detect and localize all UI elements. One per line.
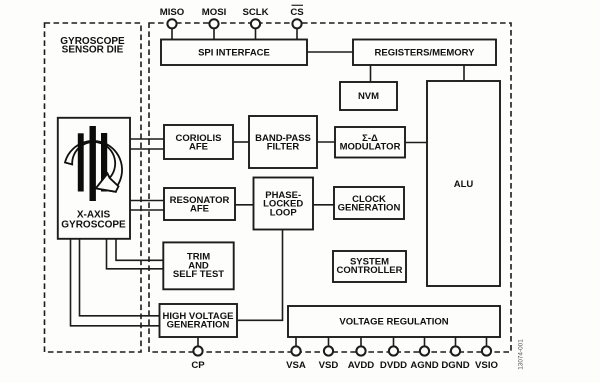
block BAND-PASS FILTER (249, 116, 317, 168)
pin SCLK (242, 7, 268, 40)
wire SPI INTERFACE to REGISTERS/MEMORY (307, 51, 353, 53)
svg-text:SCLK: SCLK (242, 7, 268, 18)
block TRIM AND SELF TEST (163, 242, 233, 289)
chip package boundary (149, 23, 511, 352)
block SIGMA-DELTA MODULATOR (335, 127, 405, 158)
pin VSIO (475, 337, 498, 371)
svg-text:VSIO: VSIO (475, 360, 498, 371)
svg-text:AFE: AFE (189, 142, 208, 153)
pin CS (active low, overline) (290, 5, 304, 39)
block VOLTAGE REGULATION (288, 306, 500, 337)
block HIGH VOLTAGE GENERATION (160, 304, 238, 337)
pin MISO (160, 7, 185, 40)
svg-text:GYROSCOPE: GYROSCOPE (61, 219, 126, 230)
svg-text:AGND: AGND (410, 360, 438, 371)
svg-text:SPI INTERFACE: SPI INTERFACE (198, 47, 270, 58)
wire gyroscope to CORIOLIS AFE (differential pair) (130, 139, 164, 149)
wire BAND-PASS FILTER to SIGMA-DELTA MODULATOR (317, 141, 335, 143)
block SPI INTERFACE (161, 40, 307, 66)
wire SIGMA-DELTA MODULATOR to ALU (405, 142, 427, 144)
pin CP (191, 337, 205, 371)
wire gyroscope to RESONATOR AFE (differential pair) (130, 201, 164, 211)
block PHASE-LOCKED LOOP (254, 178, 314, 230)
block CLOCK GENERATION (334, 187, 404, 219)
pin DGND (441, 337, 469, 371)
gyroscope rotation arrowhead (96, 174, 119, 192)
svg-text:13074-001: 13074-001 (518, 339, 525, 370)
block RESONATOR AFE (164, 188, 235, 220)
svg-text:DGND: DGND (441, 360, 469, 371)
svg-text:CP: CP (191, 360, 205, 371)
figure number 13074-001 (518, 339, 525, 370)
svg-text:MOSI: MOSI (202, 7, 227, 18)
svg-text:CONTROLLER: CONTROLLER (337, 265, 403, 276)
wire PHASE-LOCKED LOOP to HIGH VOLTAGE GENERATION (237, 230, 283, 321)
svg-text:ALU: ALU (454, 179, 474, 190)
svg-text:SELF TEST: SELF TEST (173, 269, 224, 280)
gyroscope sensor die boundary (45, 23, 142, 352)
pin VSD (319, 337, 339, 371)
svg-text:LOOP: LOOP (270, 207, 298, 218)
svg-text:VSA: VSA (286, 360, 306, 371)
pin AVDD (348, 337, 375, 371)
svg-text:FILTER: FILTER (267, 142, 300, 153)
svg-text:GENERATION: GENERATION (338, 203, 401, 214)
svg-text:MISO: MISO (160, 7, 185, 18)
svg-text:SENSOR DIE: SENSOR DIE (62, 45, 124, 56)
block CORIOLIS AFE (164, 125, 233, 159)
gyroscope rotation arrow band (65, 141, 122, 192)
svg-text:CS: CS (290, 7, 304, 18)
svg-text:VOLTAGE REGULATION: VOLTAGE REGULATION (339, 317, 448, 328)
svg-text:AVDD: AVDD (348, 360, 375, 371)
pin VSA (286, 337, 306, 371)
svg-text:AFE: AFE (190, 204, 209, 215)
pin MOSI (202, 7, 227, 40)
wire RESONATOR AFE to PHASE-LOCKED LOOP (235, 204, 254, 206)
svg-text:MODULATOR: MODULATOR (340, 142, 401, 153)
wire gyroscope to TRIM AND SELF TEST (two lines) (107, 239, 164, 269)
block NVM (340, 82, 397, 110)
svg-text:NVM: NVM (358, 91, 379, 102)
svg-text:REGISTERS/MEMORY: REGISTERS/MEMORY (375, 47, 476, 58)
wire REGISTERS/MEMORY to ALU (463, 65, 465, 81)
pin AGND (410, 337, 438, 371)
wire CORIOLIS AFE to BAND-PASS FILTER (233, 141, 249, 143)
gyroscope comb fingers (78, 126, 107, 201)
svg-text:DVDD: DVDD (380, 360, 407, 371)
wire PHASE-LOCKED LOOP to CLOCK GENERATION (313, 204, 334, 206)
block ALU (427, 81, 500, 286)
block X-AXIS GYROSCOPE (58, 118, 130, 239)
svg-text:GENERATION: GENERATION (167, 320, 230, 331)
block REGISTERS/MEMORY (353, 40, 496, 66)
block SYSTEM CONTROLLER (333, 251, 406, 282)
svg-text:VSD: VSD (319, 360, 339, 371)
pin DVDD (380, 337, 407, 371)
wire gyroscope to HIGH VOLTAGE GENERATION (two lines) (71, 239, 160, 326)
wire REGISTERS/MEMORY to NVM (370, 65, 372, 82)
